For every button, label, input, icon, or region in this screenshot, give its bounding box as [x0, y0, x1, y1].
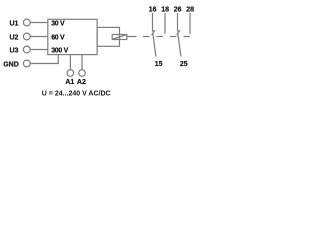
wire U2 — [30, 36, 48, 38]
terminal A1 — [67, 70, 74, 77]
wire A1 — [69, 55, 71, 70]
svg-text:U = 24...240 V AC/DC: U = 24...240 V AC/DC — [42, 91, 111, 98]
svg-text:16: 16 — [149, 6, 157, 13]
svg-text:25: 25 — [180, 61, 188, 68]
terminal GND — [23, 60, 30, 67]
wire pin 28 (NO contact) — [189, 13, 191, 34]
svg-text:U3: U3 — [9, 48, 18, 55]
svg-text:30 V: 30 V — [51, 20, 65, 27]
svg-text:A2: A2 — [77, 79, 86, 86]
svg-text:GND: GND — [3, 62, 19, 69]
mechanical linkage (dashed) — [143, 36, 193, 38]
svg-text:28: 28 — [186, 6, 194, 13]
wire pin 26 (NC contact) — [177, 13, 180, 35]
monitoring block U — [48, 19, 97, 54]
wire GND — [30, 55, 58, 64]
wire coil output — [127, 36, 137, 38]
output block — [97, 27, 119, 46]
wire U3 — [30, 49, 48, 51]
relay coil K1 — [112, 35, 127, 40]
svg-text:300 V: 300 V — [51, 48, 68, 55]
contact blade 15 — [153, 33, 156, 57]
svg-text:A1: A1 — [65, 79, 74, 86]
terminal U3 — [23, 46, 30, 53]
svg-text:60 V: 60 V — [51, 34, 65, 41]
svg-text:U1: U1 — [9, 20, 18, 27]
wire U1 — [30, 22, 48, 24]
svg-text:18: 18 — [161, 6, 169, 13]
svg-text:15: 15 — [155, 61, 163, 68]
terminal U1 — [23, 19, 30, 26]
terminal U2 — [23, 33, 30, 40]
contact blade 25 — [178, 33, 181, 57]
svg-text:U2: U2 — [9, 34, 18, 41]
svg-text:26: 26 — [174, 6, 182, 13]
wire A2 — [81, 55, 83, 70]
wire pin 18 (NO contact) — [164, 13, 166, 34]
wire pin 16 (NC contact) — [152, 13, 155, 35]
terminal A2 — [79, 70, 86, 77]
